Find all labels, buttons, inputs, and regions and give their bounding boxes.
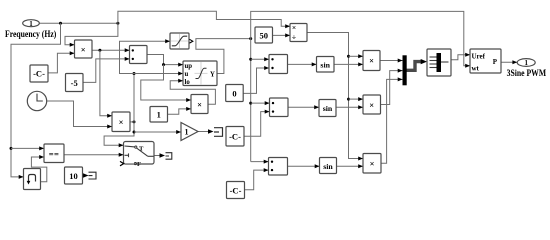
svg-text:-5: -5	[71, 78, 78, 88]
svg-text:×: ×	[369, 100, 374, 110]
node junction J7 wt to sumA	[249, 58, 252, 61]
product PB	[363, 95, 381, 114]
outport 1 3Sine PWM	[507, 59, 547, 79]
node junction J11 product2 out	[133, 120, 136, 123]
goto tag G2	[166, 153, 172, 160]
constant 0	[226, 85, 244, 102]
svg-text:÷: ÷	[292, 32, 296, 41]
sum SC	[269, 158, 288, 176]
wire productB out to mux input2	[381, 69, 403, 105]
wire productC out to mux input3	[381, 77, 403, 163]
svg-text:lo: lo	[185, 79, 191, 86]
relational operator == block	[44, 144, 64, 163]
wire Frequency down to product1 input1	[65, 23, 118, 47]
wire constant -C-2 to sumB input2	[244, 110, 270, 137]
sin block A	[317, 57, 335, 73]
wire Frequency main	[40, 22, 118, 24]
svg-text:×: ×	[370, 159, 375, 169]
node junction J1 on Frequency wire	[59, 22, 62, 25]
svg-text:u: u	[185, 71, 189, 78]
constant 1	[150, 107, 168, 123]
node junction J9 divide out to productA	[347, 55, 350, 58]
constant -C- C1	[30, 65, 48, 82]
sum SA	[269, 55, 288, 74]
wire wt to sumB input1	[251, 101, 270, 105]
svg-text:×: ×	[119, 117, 124, 127]
selector block with mux icon	[427, 49, 451, 76]
saturation block	[170, 33, 193, 49]
svg-text:1: 1	[157, 110, 161, 120]
memory block	[24, 169, 41, 190]
sin block B	[319, 100, 336, 117]
svg-text:10: 10	[69, 171, 78, 181]
wire trunk to saturation-dynamic u input	[134, 72, 183, 76]
wire constant -5 to Add1 input2	[83, 57, 130, 83]
Uref PWM generator block	[470, 49, 501, 73]
svg-text:×: ×	[369, 56, 374, 66]
wire productA out to mux input1	[380, 59, 403, 63]
svg-text:P: P	[493, 58, 498, 66]
node junction J8 wt to sumB	[249, 102, 252, 105]
wire Frequency to relational/memory branch	[11, 23, 61, 179]
svg-text:up: up	[185, 63, 193, 70]
saturation dynamic block	[183, 61, 217, 86]
wire product2 out to junction	[130, 121, 134, 123]
wire wt to sumA input1	[251, 57, 269, 61]
wire junction to eq input1	[11, 146, 44, 150]
wire trunk to saturation block input	[120, 39, 171, 73]
inport 1 Frequency (Hz)	[5, 20, 56, 39]
node junction J12 on trunk at u line	[133, 72, 136, 75]
wire Frequency top to divide input1	[118, 11, 290, 28]
divide block	[290, 23, 307, 42]
svg-text:50: 50	[259, 30, 268, 40]
wire saturation-dynamic Y output loop to wt node	[196, 39, 251, 74]
svg-text:Y: Y	[210, 72, 215, 79]
svg-text:-C-: -C-	[33, 69, 45, 79]
wire wt vertical trunk down	[250, 39, 252, 162]
svg-text:1: 1	[185, 128, 189, 137]
node junction J13 on trunk at gain line	[133, 131, 136, 134]
goto tag G1	[89, 172, 97, 179]
wire wt to sumC input1	[251, 160, 269, 164]
svg-text:Frequency (Hz): Frequency (Hz)	[5, 29, 56, 39]
wire sumA out to sinA	[288, 62, 317, 66]
node junction J6 wt node	[249, 37, 252, 40]
svg-text:×: ×	[197, 99, 202, 109]
wire sumB out to sinB	[288, 105, 319, 109]
wire eq out to switch input2	[64, 153, 124, 157]
wire selector out to Uref input	[451, 53, 470, 60]
sum Add1	[130, 46, 148, 64]
product P3	[191, 95, 208, 114]
wire sumC out to sinC	[288, 164, 320, 168]
svg-text:3Sine PWM: 3Sine PWM	[507, 69, 547, 79]
wire sinA out to productA input2	[334, 62, 363, 66]
wire divide branch to productA input1	[349, 54, 364, 58]
svg-text:0: 0	[232, 89, 236, 99]
wire Add1 out to saturation-dynamic up input	[147, 55, 183, 67]
wire constant -C-3 to sumC input2	[245, 168, 269, 190]
constant 50	[255, 27, 273, 43]
svg-text:sin: sin	[323, 162, 333, 171]
node junction J5 Add1 out	[162, 63, 165, 66]
svg-text:×: ×	[81, 44, 86, 54]
svg-text:-C-: -C-	[229, 132, 241, 142]
goto tag G3	[214, 128, 223, 137]
wire constant 50 to divide input2	[273, 33, 291, 37]
node junction J3 memory branch	[10, 147, 13, 150]
product PC	[363, 154, 381, 174]
wire constant 10 out to goto tag G1	[83, 173, 89, 178]
svg-text:×: ×	[292, 23, 296, 32]
mux block	[403, 55, 407, 85]
svg-text:1: 1	[29, 20, 33, 28]
wire gain out to goto tag G3	[198, 129, 214, 134]
svg-text:-C-: -C-	[230, 186, 242, 196]
wire product3 out loop to saturation-dynamic lo input	[170, 79, 215, 105]
svg-text:F: F	[137, 161, 141, 168]
gain 1 triangle	[181, 123, 198, 141]
constant 10	[65, 167, 83, 184]
wire switch out to goto tag G2	[154, 153, 165, 158]
wire Add1 out branch to product3 input1	[141, 65, 191, 102]
svg-text:==: ==	[49, 149, 59, 159]
svg-text:sin: sin	[320, 60, 330, 69]
wire product1 out to Add1 input1	[92, 48, 130, 52]
svg-text:sin: sin	[323, 104, 333, 113]
product PA	[363, 51, 380, 71]
wire divide out trunk	[307, 33, 363, 161]
wire mux bus to selector block (thick)	[407, 59, 428, 70]
product P1	[75, 40, 93, 58]
wire constant 1 to product3 input2	[168, 107, 192, 114]
wire sinB out to productB input2	[336, 105, 363, 109]
clock	[27, 91, 46, 110]
constant -C- C2	[226, 127, 244, 147]
node junction J2 on Frequency wire	[116, 22, 119, 25]
product P2	[112, 112, 130, 132]
node junction J4 product1 out	[98, 49, 101, 52]
wire constant 0 to sumA input2	[243, 66, 269, 93]
node junction J10 divide out to productB	[347, 98, 350, 101]
wire Uref P out to outport	[501, 60, 517, 64]
wire divide branch to productB input1	[349, 97, 364, 101]
constant -5	[66, 74, 84, 92]
wire product1 out branch to product2 input1	[100, 50, 112, 118]
constant -C- C3	[227, 182, 245, 199]
wire sinC out to productC input2	[337, 164, 364, 168]
wire wt up to Uref block wt input	[251, 11, 470, 67]
svg-text:wt: wt	[472, 64, 480, 72]
switch block	[120, 142, 154, 169]
sum SB	[270, 98, 289, 117]
wire constant -C- to product1 input2	[48, 51, 75, 73]
svg-text:Uref: Uref	[472, 52, 486, 60]
sin block C	[320, 158, 337, 174]
wire memory out stair to eq input2	[31, 155, 46, 182]
wire clock to product2 input2	[47, 101, 112, 129]
svg-text:1: 1	[524, 59, 528, 67]
wire product2 vertical trunk	[104, 74, 134, 148]
wire trunk to gain input	[134, 130, 181, 134]
